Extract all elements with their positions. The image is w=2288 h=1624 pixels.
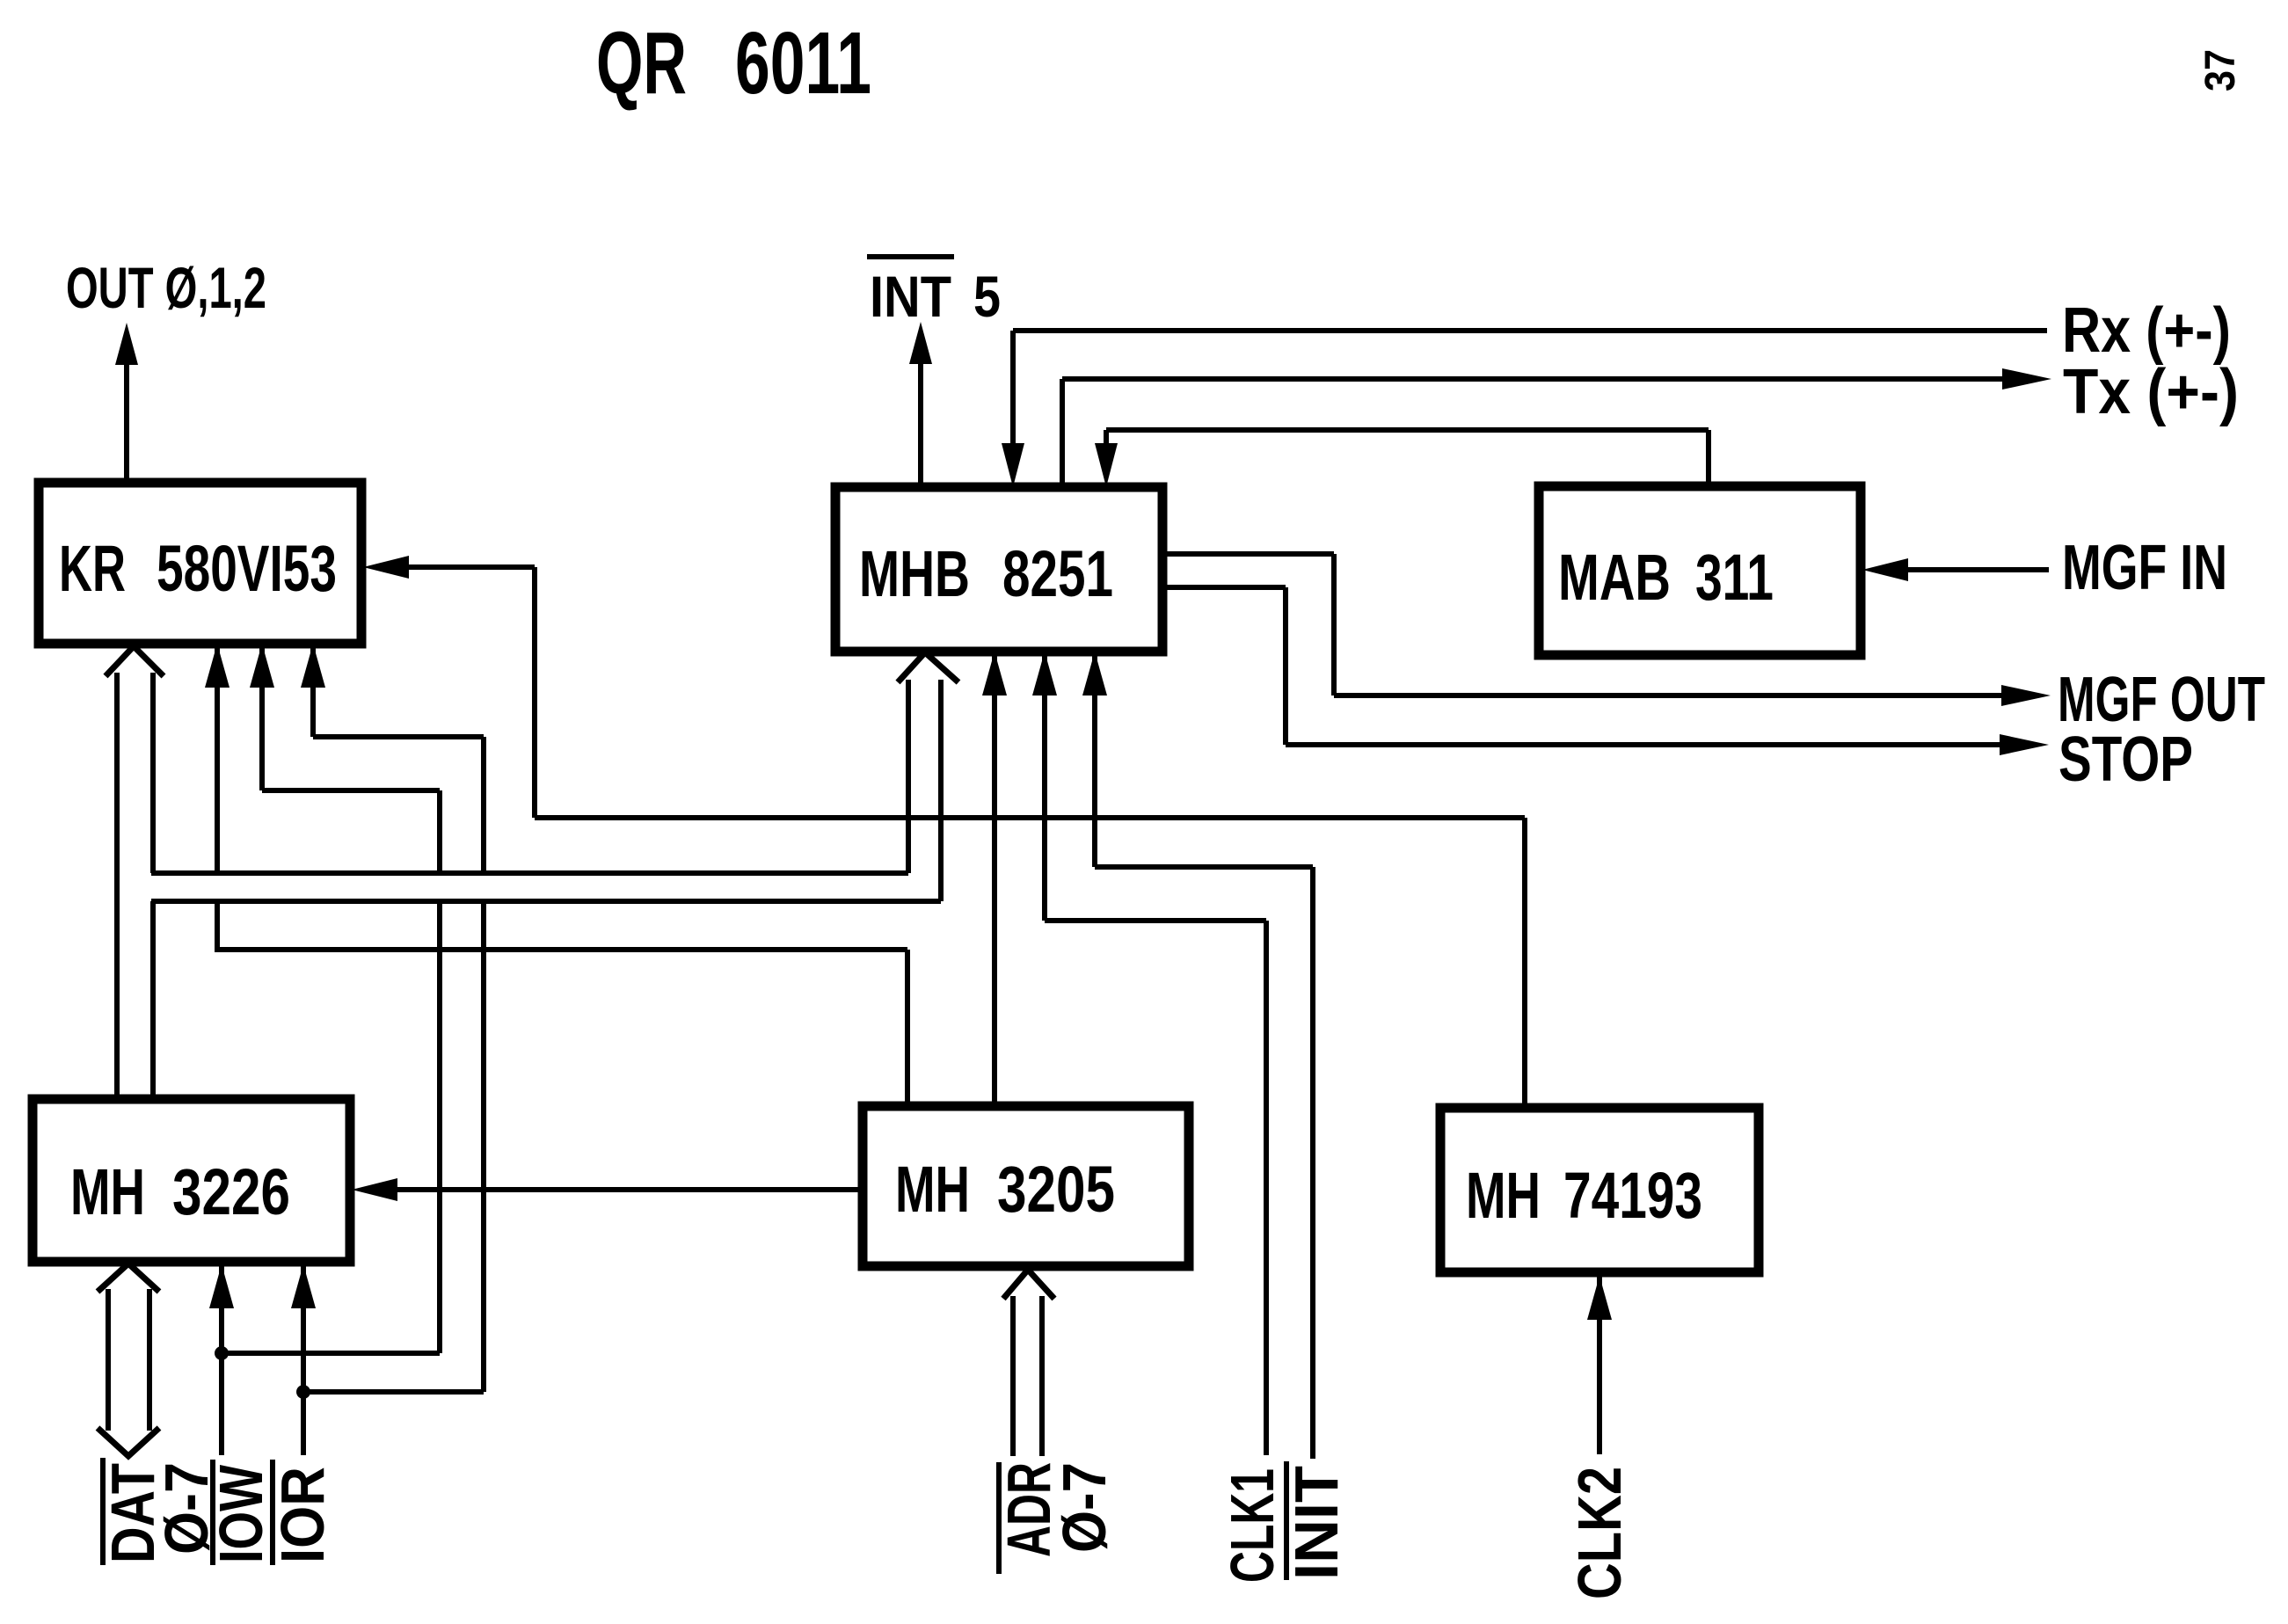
wire U2 pin2 to U5 top <box>982 652 1007 695</box>
wire CLK2 into U6 <box>1587 1276 1612 1320</box>
svg-text:Ø-7: Ø-7 <box>1049 1462 1118 1553</box>
wire OUT arrow from U1 top <box>124 356 129 483</box>
svg-text:IOR: IOR <box>267 1467 336 1563</box>
wire INT5 arrow from U2 top <box>918 355 923 487</box>
bus ADR into U5 (hollow arrow) <box>1003 1270 1054 1299</box>
IC U4 MH 3226 <box>33 1099 350 1262</box>
svg-text:6011: 6011 <box>735 14 871 113</box>
svg-text:MH: MH <box>895 1153 970 1226</box>
wire IOW arrow into U4 <box>209 1264 234 1308</box>
bus DAT vertical U1-U4 (hollow arrow into U1) <box>106 646 164 676</box>
wire CLK1 to U2 pin3 <box>1032 652 1057 695</box>
svg-text:311: 311 <box>1695 541 1774 614</box>
svg-text:STOP: STOP <box>2058 723 2193 794</box>
IC U2 MHB 8251 <box>835 487 1162 652</box>
svg-text:3205: 3205 <box>997 1154 1115 1226</box>
wire U1 pin1 to U5 top <box>205 644 230 688</box>
svg-text:74193: 74193 <box>1563 1159 1702 1232</box>
bus branch to U2 (hollow arrow into U2 bottom) <box>898 652 958 682</box>
svg-text:3226: 3226 <box>172 1156 290 1228</box>
wire STOP from U2 right <box>1162 585 1286 590</box>
wire MGF IN into U3 <box>1862 558 1908 581</box>
wire IOR riser to U1 pin3 <box>301 644 325 688</box>
wire Rx into U2 top <box>1002 443 1024 487</box>
svg-text:INIT: INIT <box>1281 1466 1351 1580</box>
svg-text:QR: QR <box>596 14 687 113</box>
wire Tx from U2 top <box>1060 379 1065 487</box>
svg-text:KR: KR <box>59 532 126 605</box>
svg-text:CLK1: CLK1 <box>1218 1468 1286 1583</box>
svg-text:Tx (+-): Tx (+-) <box>2063 355 2239 426</box>
bus channel top edge y993 <box>151 870 908 876</box>
wire U6 top to U1 right input <box>363 556 409 579</box>
IC U6 MH 74193 <box>1440 1108 1759 1272</box>
svg-text:MH: MH <box>70 1155 145 1228</box>
svg-text:MAB: MAB <box>1558 542 1671 614</box>
wire IOW riser to U1 pin2 <box>250 644 274 688</box>
wire INIT to U2 pin4 <box>1082 652 1107 695</box>
junction dot IOR <box>296 1385 310 1399</box>
svg-text:8251: 8251 <box>1002 537 1113 610</box>
svg-text:MHB: MHB <box>859 537 970 610</box>
svg-text:CLK2: CLK2 <box>1565 1467 1635 1599</box>
wire U3 top to U2 top <box>1095 443 1118 487</box>
junction dot IOW <box>215 1346 229 1360</box>
svg-text:Ø-7: Ø-7 <box>153 1462 222 1555</box>
IC U3 MAB 311 <box>1539 486 1861 655</box>
svg-text:5: 5 <box>973 265 1001 329</box>
svg-text:580VI53: 580VI53 <box>157 532 337 605</box>
svg-text:INT: INT <box>870 265 951 329</box>
wire U5 to U4 left arrow <box>352 1178 397 1201</box>
wire MGF OUT from U2 right <box>1162 551 1334 557</box>
IC U5 MH 3205 <box>863 1106 1189 1266</box>
IC U1 KR 580VI53 <box>39 483 361 644</box>
svg-text:MH: MH <box>1466 1159 1541 1232</box>
bus DAT external (double-headed hollow) <box>98 1264 159 1292</box>
svg-text:MGF IN: MGF IN <box>2062 532 2227 602</box>
svg-text:OUT Ø,1,2: OUT Ø,1,2 <box>66 256 266 321</box>
wire IOR arrow into U4 <box>291 1264 316 1308</box>
svg-text:37: 37 <box>2197 49 2244 91</box>
bus channel bottom edge y1025 <box>151 899 941 904</box>
